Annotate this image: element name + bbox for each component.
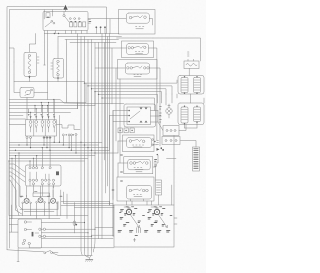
P drops to bus bbox=[23, 203, 58, 219]
fuse switch FS1 contacts bbox=[44, 252, 46, 254]
oven lamp row bus lower bbox=[9, 108, 77, 110]
inset bottom mark bbox=[133, 238, 135, 242]
oven selector switch OS1 box bbox=[18, 219, 42, 248]
K2 blade bbox=[136, 161, 145, 163]
node N label mark bbox=[89, 21, 91, 23]
OL1 stem above bbox=[168, 104, 170, 108]
wire bus to EB2 bbox=[47, 31, 49, 34]
inset resistor marks bbox=[137, 228, 141, 233]
wire switch box bottom drops bbox=[45, 31, 88, 34]
wire selector to inset b bbox=[92, 234, 114, 236]
fuse block top dots bbox=[70, 21, 71, 22]
lamp bank bottom terminals bbox=[26, 137, 28, 139]
wire P1 riser to clock bbox=[27, 190, 53, 197]
TS1 blade diagonal bbox=[130, 111, 140, 119]
PL-B label marks bbox=[145, 209, 171, 233]
TS1 contact arrows bottom bbox=[140, 121, 148, 123]
wire bus under elements bbox=[14, 81, 85, 83]
wire bus to EB1 bbox=[29, 34, 35, 53]
thermostat pilot box TB1 bbox=[163, 126, 179, 136]
wire border to OS1 bbox=[9, 225, 18, 233]
broil element EB2 box bbox=[53, 59, 64, 79]
surface pilot lamp P2 bbox=[38, 198, 43, 203]
surface element unit E2 outer box bbox=[178, 103, 204, 125]
K1 right contact bbox=[142, 140, 145, 143]
wire selector to inset a bbox=[95, 227, 113, 229]
main contact stem bbox=[63, 12, 65, 15]
lower bus L7 bbox=[9, 157, 88, 159]
element feed bus R4 bbox=[95, 92, 162, 103]
wire into DS1 bbox=[14, 62, 20, 93]
EB2 side tick labels bbox=[51, 63, 53, 69]
wire relay right links bbox=[153, 145, 158, 163]
vertical bundle line V2 bbox=[80, 37, 82, 251]
junction dots left bus ends bbox=[8, 160, 9, 161]
inset internal wires bbox=[124, 207, 157, 209]
contact circle S1a bbox=[51, 20, 53, 22]
TS1 right text specks bbox=[160, 107, 162, 123]
wire drop to EB2 top bbox=[57, 37, 59, 59]
K2 inner contact bbox=[133, 162, 136, 165]
EB2 element coil bbox=[57, 63, 60, 74]
junction dot bus1 a bbox=[54, 33, 55, 34]
wire drop from N wire at x110 bbox=[109, 19, 111, 34]
wire OS1 extra runs right bbox=[29, 223, 114, 248]
vertical bundle line V9 bbox=[105, 34, 107, 194]
wire inset right edge stub bbox=[174, 218, 177, 224]
lamp bank divider 2 bbox=[44, 120, 46, 136]
terminal stub N1 on switch box right bbox=[88, 19, 91, 21]
lower bus L2 bbox=[9, 144, 98, 146]
wire bundle extend bbox=[92, 226, 96, 252]
TS1 contact arrows top bbox=[140, 108, 148, 110]
wire relay K3 bottom stubs bbox=[130, 199, 143, 201]
oven thermostat TS1 outer box bbox=[124, 104, 156, 127]
oven lamp row bus mid bbox=[9, 105, 95, 107]
wire diag crossover b bbox=[9, 180, 19, 216]
wire SW3 right riser bbox=[150, 68, 160, 88]
vertical bundle line V3 bbox=[84, 37, 86, 251]
wire E2 to TB1 bbox=[179, 125, 186, 131]
pilot box terminals bbox=[165, 140, 167, 142]
left bus join riser c bbox=[94, 92, 96, 106]
EB2 bottom terminal bbox=[57, 74, 59, 76]
OS1 link lines bbox=[27, 222, 39, 233]
vertical line V12 bbox=[104, 43, 106, 161]
ground symbol G1 bbox=[88, 257, 90, 259]
oven lamp OL1 bbox=[166, 108, 172, 114]
junction dots OS1 runs bbox=[84, 222, 85, 223]
K3 right contact bbox=[142, 189, 145, 192]
wire into K1 left bbox=[118, 140, 127, 142]
wire border stub to door switch bbox=[9, 48, 14, 62]
wire K1 K2 risers right bbox=[157, 84, 160, 146]
wire bottom run bbox=[52, 252, 58, 254]
surface unit switch SW2 outer box bbox=[122, 41, 154, 58]
broil unit RB1 box bbox=[184, 61, 199, 69]
CT1 top terminal stems bbox=[30, 148, 50, 167]
DS1 hook symbol bbox=[25, 90, 31, 95]
lower bus L8 bbox=[9, 160, 84, 162]
vertical line V10 bbox=[109, 34, 111, 206]
small contact squares row under TS1 bbox=[118, 128, 122, 133]
SW1 right contact bbox=[144, 16, 147, 19]
wire border to lamp bank bbox=[9, 119, 25, 125]
EB1 element coil bbox=[28, 57, 31, 71]
oven relay K1 bbox=[127, 138, 152, 148]
E1 coil left hatch bbox=[182, 80, 188, 90]
CT1 motor blob bbox=[56, 171, 59, 175]
lower bus L4 bbox=[9, 149, 109, 151]
wire K3b drop bbox=[158, 195, 160, 205]
vertical bundle line V8 bbox=[101, 34, 103, 239]
fuse block 3 bbox=[78, 22, 81, 27]
CT1 bottom terminals bbox=[32, 183, 34, 185]
ground hatches bbox=[85, 260, 92, 262]
wire into SW2 from left bbox=[95, 47, 127, 49]
vertical bundle line V1 bbox=[77, 34, 79, 109]
wire P lamp diagonals from border bbox=[16, 206, 24, 214]
wire under-lamp links bbox=[20, 202, 58, 212]
terminal circle T2 above bus bbox=[100, 26, 102, 28]
pilot lamp bus b bbox=[9, 218, 60, 220]
E2 coil right bbox=[194, 107, 201, 122]
K2 right contact bbox=[146, 162, 149, 165]
surface unit switch SW3 outer box bbox=[118, 60, 158, 80]
OL1 stem below bbox=[168, 114, 170, 118]
wire DS1 bottom drop bbox=[26, 98, 28, 120]
lamp stems to buses bbox=[31, 100, 55, 120]
EB2 top terminal bbox=[57, 60, 59, 62]
EB1 top terminal bbox=[28, 54, 30, 56]
lower bus L6 bbox=[9, 155, 95, 157]
wire clock to inset bus c bbox=[61, 205, 114, 207]
K3 left contact bbox=[129, 189, 132, 192]
lower bus L3 bbox=[9, 147, 108, 149]
K2 left contact bbox=[130, 162, 133, 165]
junction dots lamp stems bbox=[30, 112, 31, 113]
K2 pin marks bbox=[134, 167, 143, 172]
lamp chevron dots bbox=[30, 116, 56, 118]
contact circle S1d bbox=[74, 18, 76, 20]
bus under switch box bbox=[45, 33, 120, 35]
P1 top stem bbox=[26, 196, 28, 199]
PL-A filament bbox=[127, 210, 131, 214]
terminal circle T3 above bus bbox=[104, 26, 106, 28]
wire E2 bottom hooks bbox=[185, 122, 198, 129]
TS1 left terminals bbox=[128, 110, 130, 112]
wire E1 to E2 link bbox=[190, 94, 192, 103]
wire border diagonals into CT1 bbox=[9, 164, 25, 182]
wire switch box to surface switch 1 bbox=[88, 18, 126, 20]
wire bus to door switch riser bbox=[47, 34, 49, 93]
vertical bundle line V6 bbox=[94, 43, 96, 227]
SW3 second right contact bbox=[147, 67, 149, 69]
P2 side terminals bbox=[36, 202, 38, 204]
wire clock to inset bus b bbox=[64, 203, 113, 205]
junction dot bus1 b bbox=[58, 33, 59, 34]
vertical label box PL1 bbox=[193, 147, 200, 171]
lamp bank divider 1 bbox=[33, 120, 35, 136]
wire N supply inner left/top line bbox=[9, 10, 62, 248]
contact squares dots bbox=[119, 130, 120, 131]
vertical line V14 bbox=[111, 48, 113, 104]
pilot detail inset box bbox=[114, 205, 174, 247]
K3 blade bbox=[132, 189, 142, 191]
vertical bundle line V4 bbox=[87, 40, 89, 251]
surface unit switch SW1 bbox=[126, 13, 149, 23]
lamp riser stubs to buses bbox=[29, 100, 54, 113]
E2 coil left hatch bbox=[182, 110, 188, 120]
PL1 text lines bbox=[194, 149, 199, 169]
oven lamp row bus top bbox=[9, 100, 124, 104]
SW3 blade bbox=[132, 66, 142, 68]
K1 left contact bbox=[129, 140, 132, 143]
fuse block 1 bbox=[70, 22, 73, 27]
wire into K2 left bbox=[118, 162, 128, 164]
wire K2 left riser bbox=[117, 163, 119, 177]
EB1 bottom terminal bbox=[28, 71, 30, 73]
E2 coil left bbox=[181, 107, 188, 123]
P lamp label specks bbox=[21, 192, 63, 197]
K1 right terminals bbox=[152, 139, 154, 141]
pilot lamp bus a bbox=[9, 215, 88, 217]
P2 filament bbox=[39, 199, 42, 202]
lamp bank terminal drops bbox=[27, 136, 54, 150]
K2 right text specks bbox=[112, 155, 157, 190]
CT1 top terminals bbox=[29, 167, 31, 169]
thermal cutout TC1 bbox=[73, 203, 75, 234]
PL-A arrow diagonal bbox=[131, 215, 140, 227]
wire EB1 bottom drop bbox=[28, 76, 30, 82]
main contact blade bbox=[65, 17, 69, 22]
CT1 mid terminals bbox=[29, 179, 31, 181]
SW3 right contact bbox=[144, 67, 146, 69]
wire top feed to fuse drop B bbox=[52, 10, 54, 16]
element feed bus R5 bbox=[99, 94, 158, 103]
SW3 left contact bbox=[127, 67, 129, 69]
element feed bus R2 bbox=[88, 86, 172, 94]
wire top line continuation to right drop bbox=[68, 7, 107, 34]
P3 top stem bbox=[52, 197, 54, 198]
SW2 left contact bbox=[128, 47, 130, 49]
wire L1 supply outer left/top line bbox=[7, 7, 64, 250]
wire stub T2 bbox=[100, 28, 102, 33]
wire arrow stem into switch box bbox=[65, 9, 67, 12]
wire stub T3 bbox=[104, 28, 106, 33]
flag symbol bowtie bbox=[157, 148, 160, 151]
OS1 left terminals bbox=[24, 221, 26, 223]
K1 pin marks bbox=[133, 145, 144, 147]
element feed bus R6 bbox=[102, 98, 155, 111]
wire bottom curve to ground bbox=[52, 253, 92, 255]
junction dots lower bus bbox=[80, 142, 81, 143]
label box above P2 bbox=[33, 193, 50, 197]
contact circle S1e bbox=[78, 18, 80, 20]
wire OS1 bottom drop bbox=[17, 248, 19, 262]
RB1 label marks bbox=[188, 52, 190, 56]
lamp circle LC1 bbox=[29, 121, 32, 124]
lower bus L1 bbox=[9, 141, 102, 143]
SW1 pin marks bbox=[136, 27, 144, 29]
surface unit switch SW2 bbox=[127, 44, 149, 55]
inset extra text specks bbox=[120, 207, 173, 236]
oven relay K3 outer box bbox=[117, 177, 154, 201]
oven lamp row bus upper bbox=[9, 102, 86, 104]
K3b hatch bbox=[157, 183, 161, 193]
element feed bus R3 bbox=[92, 89, 167, 94]
surface pilot lamp P1 bbox=[24, 198, 29, 203]
bus second line bbox=[58, 36, 122, 38]
CT1 inner link lines bbox=[30, 172, 49, 179]
wire right risers to E2 bbox=[166, 94, 172, 105]
OS1 bottom terminals bbox=[22, 242, 24, 244]
surface unit switch SW3 bbox=[125, 63, 149, 74]
E1 coil right bbox=[194, 78, 201, 93]
lamp bank bottom dots bbox=[43, 137, 44, 138]
pilot box right of K1 bbox=[162, 137, 180, 145]
element feed bus R1 bbox=[85, 80, 178, 83]
P1 filament bbox=[25, 199, 28, 202]
wire K1 left riser group bbox=[110, 111, 119, 200]
vertical bundle line V5 bbox=[91, 40, 93, 237]
wire OS1 right hooks bbox=[41, 229, 95, 236]
wire SW2 right riser bbox=[149, 48, 157, 84]
wire left riser bundle lower bbox=[9, 153, 19, 219]
wire diag crossover a bbox=[9, 176, 21, 197]
oven relay K3 bbox=[127, 186, 152, 200]
lamp circle LC5 bbox=[53, 121, 56, 124]
wire EB2 bottom drop bbox=[57, 76, 59, 82]
vertical line V16 bbox=[119, 79, 121, 163]
clock timer CT1 box bbox=[26, 165, 62, 186]
fuse F1 inside switch box bbox=[46, 13, 50, 18]
wire inset top feeds bbox=[127, 201, 152, 205]
wire broil feed across top bbox=[153, 38, 201, 61]
wire inset feeder riser a bbox=[109, 202, 111, 206]
switch blade S1a bbox=[45, 22, 51, 27]
K3 second contact bbox=[146, 189, 149, 192]
K1 label marks bbox=[157, 141, 159, 145]
aux wiring zigzag right of lamp bank bbox=[57, 125, 81, 130]
left bus join riser b bbox=[85, 83, 87, 102]
K3 pin marks bbox=[134, 195, 143, 197]
wire DS1 right lead bbox=[34, 93, 48, 100]
wire stub x44.5 bbox=[44, 34, 46, 66]
wire SW1 right drop bbox=[149, 19, 152, 26]
EB1 side tick labels bbox=[37, 57, 39, 63]
wire clock drop joins bbox=[61, 190, 67, 219]
fuse block 2 bbox=[74, 22, 77, 27]
RB1 element squiggle bbox=[186, 64, 197, 67]
E2 terminal dots bbox=[184, 106, 185, 107]
wire K2 right run bbox=[153, 167, 156, 180]
wire outer box SW2 to SW1 link bbox=[117, 37, 154, 39]
oven relay K1 outer box bbox=[123, 135, 155, 152]
TB1 terminals bbox=[166, 130, 168, 132]
surface unit switch SW1 outer box bbox=[119, 10, 156, 35]
wire drop right of EB2 bbox=[66, 40, 68, 103]
wire TS1 right leads bbox=[151, 111, 162, 123]
fuse block 4 bbox=[83, 22, 86, 27]
main switch box S1 bbox=[43, 12, 88, 31]
PL-A label marks bbox=[118, 209, 137, 233]
lower bus L5 bbox=[9, 152, 118, 154]
SW1 blade bbox=[132, 16, 143, 19]
bake element EB1 box bbox=[24, 52, 37, 76]
OS1 right terminals bbox=[39, 228, 41, 230]
TS1 inner box bbox=[127, 107, 151, 125]
E1 coil left bbox=[181, 78, 188, 93]
lamp circle LC2 bbox=[35, 121, 38, 124]
SW1 left contact bbox=[129, 16, 132, 19]
main contact circle bbox=[63, 15, 65, 17]
relay aux element box K3b bbox=[156, 180, 162, 195]
oven lamp row bus lowest bbox=[9, 112, 70, 115]
wire clock to inset bus d bbox=[74, 207, 114, 209]
aux terminal drops bbox=[63, 135, 76, 153]
OS1 outside terminals bbox=[43, 228, 45, 230]
PL-B filament bbox=[155, 210, 159, 214]
SW2 right contact bbox=[144, 46, 146, 48]
door switch DS1 box bbox=[20, 88, 34, 98]
node A supply arrow bbox=[63, 5, 68, 10]
lamp circle LC3 bbox=[41, 121, 44, 124]
oven relay K2 bbox=[128, 159, 150, 170]
junction dots clock risers bbox=[29, 160, 30, 161]
SW3 inner contact bbox=[130, 67, 132, 69]
wire top feed to fuse drop A bbox=[43, 10, 45, 19]
aux terminal dots bbox=[66, 134, 67, 135]
wire left vertical feed to OS1 bbox=[11, 205, 13, 232]
surface element unit E1 outer box bbox=[178, 76, 204, 95]
contact circle S1c bbox=[69, 18, 71, 20]
SW2 pin marks bbox=[135, 52, 143, 54]
P3 side terminals bbox=[48, 202, 50, 204]
OS1 cam bar bbox=[32, 232, 34, 237]
left bus join riser a bbox=[77, 103, 79, 109]
aux terminal circles bbox=[62, 134, 64, 136]
vertical line V11 bbox=[112, 111, 114, 237]
wire RB1 down to element E1 bbox=[188, 69, 190, 76]
wire stub T1 bbox=[95, 28, 97, 33]
inset lamp PL-A bbox=[126, 209, 131, 214]
SW2 inner contact bbox=[131, 47, 133, 49]
wire TS1 left leads bbox=[110, 111, 130, 122]
E1 coil right hatch bbox=[194, 80, 200, 90]
K1 blade bbox=[132, 139, 142, 141]
E2 coil right hatch bbox=[194, 110, 200, 120]
RB1 terminal stub 1 bbox=[187, 59, 189, 61]
indicator lamp bank box bbox=[26, 120, 57, 136]
lamp forks bbox=[29, 125, 55, 133]
P1 side terminals bbox=[22, 202, 24, 204]
SW2 blade bbox=[134, 46, 143, 48]
inset lamp PL-B bbox=[154, 209, 159, 214]
terminal stub N2 on switch box right bbox=[88, 22, 91, 24]
DS1 terminal bbox=[31, 89, 33, 91]
FS1 blade bbox=[46, 250, 51, 252]
P3 filament bbox=[52, 199, 55, 202]
junction dots on bundle bbox=[84, 82, 85, 83]
lamp circle LC4 bbox=[47, 121, 50, 124]
SW3 pin marks bbox=[134, 75, 142, 77]
inset lamp top ticks bbox=[128, 207, 159, 209]
junction dots lamp buses bbox=[28, 112, 29, 113]
wire TS1 to TB1 riser bbox=[158, 111, 163, 131]
RB1 terminal stub 2 bbox=[193, 59, 195, 61]
oven relay K2 outer box bbox=[124, 157, 153, 174]
